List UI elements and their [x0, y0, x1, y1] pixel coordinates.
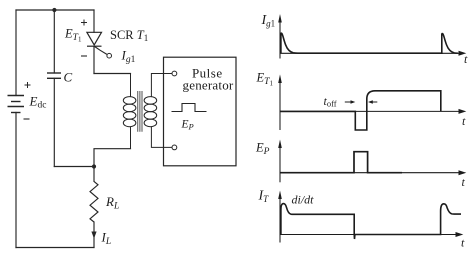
node B junction dot cathode/load — [92, 164, 96, 168]
wire left rail upper — [15, 10, 17, 96]
waveform Ig1 curve — [281, 33, 458, 53]
wire resistor to bottom rail — [93, 222, 95, 248]
resistor RL — [90, 181, 98, 222]
battery minus sign — [24, 118, 30, 120]
wire left rail lower — [15, 113, 17, 248]
pulse generator box — [164, 57, 237, 166]
wire primary bottom to node — [94, 149, 131, 167]
wire top rail — [16, 9, 94, 11]
node A junction dot top — [52, 8, 56, 12]
waveform Ig1 x-axis — [280, 52, 459, 54]
gate terminal circle — [107, 53, 112, 58]
wire bottom rail — [16, 247, 94, 249]
pulse generator bottom terminal — [172, 145, 177, 150]
waveform Ig1 y-axis — [279, 21, 281, 59]
svg-text:di/dt: di/dt — [292, 192, 315, 206]
battery Edc — [8, 96, 25, 113]
SCR minus sign — [81, 55, 87, 57]
waveform IT y-axis — [279, 198, 281, 243]
svg-text:generator: generator — [183, 78, 234, 93]
capacitor C — [47, 73, 61, 78]
wire SCR cathode — [93, 46, 95, 73]
waveform EP y-axis — [279, 147, 281, 183]
wire capacitor branch lower — [53, 78, 55, 166]
waveform ET1 x-axis — [280, 110, 459, 112]
SCR gate lead — [95, 47, 107, 55]
pulse generator top terminal — [172, 71, 177, 76]
pulse symbol glyph — [172, 104, 207, 112]
SCR T1 thyristor — [87, 32, 102, 46]
waveform IT curve — [281, 204, 461, 239]
battery plus sign — [25, 82, 31, 88]
wire SCR anode — [93, 10, 95, 32]
transformer secondary winding — [144, 74, 172, 148]
waveform ET1 curve — [280, 91, 441, 130]
current arrow IL — [91, 232, 96, 239]
svg-text:C: C — [64, 70, 73, 85]
wire capacitor to node — [54, 166, 94, 168]
t_off left-pointing arrow — [372, 101, 377, 103]
waveform ET1 y-axis — [279, 82, 281, 131]
waveform EP x-axis — [280, 172, 459, 174]
waveform EP curve — [280, 152, 402, 173]
wire cathode to primary top — [94, 73, 131, 75]
wire node to resistor — [93, 167, 95, 182]
wire capacitor branch upper — [53, 10, 55, 73]
transformer primary winding — [123, 74, 136, 149]
svg-text:SCR T1: SCR T1 — [110, 28, 148, 43]
t_off right-pointing arrow — [345, 101, 352, 103]
transformer core — [138, 91, 142, 132]
waveform IT x-axis — [280, 234, 456, 236]
SCR plus sign — [81, 20, 87, 26]
